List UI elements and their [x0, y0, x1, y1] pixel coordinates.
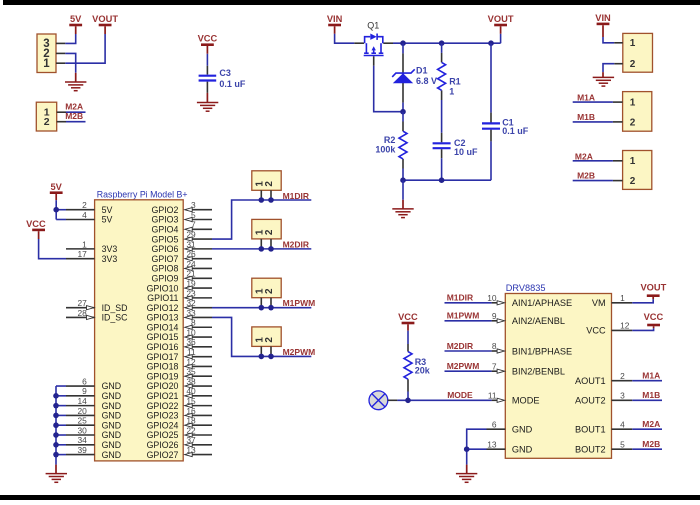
svg-text:GND: GND: [512, 425, 533, 435]
svg-text:GND: GND: [512, 445, 533, 455]
svg-text:M1A: M1A: [577, 93, 595, 103]
svg-text:GPIO3: GPIO3: [152, 215, 179, 225]
junction top rail at D1: [400, 40, 406, 46]
wire BOUT2 M2B: [632, 448, 662, 450]
svg-text:11: 11: [187, 347, 196, 357]
wire M2B (left): [66, 121, 86, 123]
svg-text:37: 37: [186, 435, 196, 445]
junction top rail at C1: [488, 40, 494, 46]
junctions M1DIR pins: [259, 197, 274, 203]
svg-text:13: 13: [186, 445, 196, 455]
net wire M1DIR to AIN1: [445, 302, 492, 304]
svg-text:10: 10: [487, 293, 497, 303]
svg-text:38: 38: [186, 376, 196, 386]
wire BOUT1 M2A: [632, 428, 662, 430]
svg-text:1: 1: [630, 98, 636, 109]
svg-text:M2PWM: M2PWM: [283, 347, 316, 357]
svg-text:11: 11: [488, 391, 497, 401]
svg-text:AOUT2: AOUT2: [575, 396, 606, 406]
svg-text:28: 28: [77, 308, 87, 318]
svg-text:32: 32: [186, 298, 196, 308]
supply flag VCC (C3): [198, 33, 218, 53]
connector JP1 pin stubs: [56, 43, 65, 63]
svg-text:6.8 V: 6.8 V: [416, 76, 437, 86]
junction 5V net: [53, 207, 59, 213]
svg-text:19: 19: [186, 278, 196, 288]
connector M2PWM pin stubs: [261, 346, 271, 356]
connector M1 pin labels: [630, 98, 636, 129]
svg-text:31: 31: [186, 239, 196, 249]
svg-text:2: 2: [264, 229, 275, 235]
wire M2B (right): [573, 180, 613, 182]
ground (C3): [197, 103, 218, 112]
svg-text:27: 27: [77, 298, 87, 308]
junction top rail at R1: [439, 40, 445, 46]
svg-text:1: 1: [82, 239, 87, 249]
svg-text:6: 6: [82, 376, 87, 386]
connector M2PWM box: [252, 327, 281, 347]
svg-text:4: 4: [82, 210, 87, 220]
svg-text:20: 20: [77, 406, 87, 416]
connector M1 pin stubs: [613, 102, 623, 122]
svg-text:M1PWM: M1PWM: [283, 298, 316, 308]
svg-text:20k: 20k: [415, 366, 431, 376]
svg-text:M1PWM: M1PWM: [447, 311, 480, 321]
svg-text:9: 9: [82, 386, 87, 396]
junctions M2PWM pins: [259, 354, 274, 360]
wire 5V to pins 2 and 4: [56, 200, 66, 219]
svg-text:VCC: VCC: [586, 326, 606, 336]
wire GPIO13 to M2PWM rail: [212, 317, 311, 356]
junction DRV8835 GND: [464, 446, 470, 452]
svg-text:GND: GND: [102, 430, 122, 440]
wire M2A (right): [573, 160, 613, 162]
wire VOUT to pin 1: [65, 34, 105, 63]
connector JP1 (3-pin) box: [37, 34, 56, 73]
svg-text:VM: VM: [592, 298, 606, 308]
svg-text:BIN1/BPHASE: BIN1/BPHASE: [512, 346, 572, 356]
svg-text:5V: 5V: [70, 14, 82, 24]
junction bottom rail at C2: [439, 177, 445, 183]
svg-text:GND: GND: [102, 381, 122, 391]
junction MODE/R3: [405, 398, 411, 404]
svg-text:39: 39: [77, 445, 87, 455]
ground (top-left connector): [65, 82, 86, 91]
supply flag VIN (right): [595, 13, 611, 37]
svg-text:2: 2: [630, 59, 636, 70]
svg-text:1: 1: [43, 58, 50, 70]
wire VIN to connector pin 1: [603, 37, 614, 43]
connector M1PWM pin stubs: [261, 298, 271, 308]
Raspberry Pi GPIO pin stubs and arrows: [185, 208, 212, 457]
wire VOUT drop: [500, 34, 502, 43]
svg-text:GPIO20: GPIO20: [147, 381, 179, 391]
DRV8835 right pin names: [575, 298, 606, 454]
svg-text:Raspberry Pi Model B+: Raspberry Pi Model B+: [97, 189, 188, 199]
svg-text:M2B: M2B: [642, 439, 660, 449]
svg-text:AIN2/AENBL: AIN2/AENBL: [512, 316, 565, 326]
svg-text:22: 22: [186, 425, 196, 435]
connector M2DIR box: [252, 219, 281, 239]
connector M2 pin stubs: [613, 161, 623, 181]
ground (DRV8835): [456, 474, 477, 483]
capacitor C1 symbol: [482, 122, 500, 124]
svg-text:GPIO19: GPIO19: [147, 371, 179, 381]
ground (VIN connector): [593, 77, 614, 86]
svg-text:GPIO5: GPIO5: [152, 234, 179, 244]
wire AOUT1 M1A: [632, 380, 662, 382]
wire GPIO5 to M1DIR rail: [212, 200, 311, 239]
svg-text:GPIO11: GPIO11: [147, 293, 178, 303]
node MODE stub: [388, 399, 398, 401]
svg-text:5: 5: [191, 210, 196, 220]
connector JP2 (M2 header) box: [36, 102, 56, 131]
svg-text:GPIO21: GPIO21: [147, 391, 179, 401]
svg-text:VIN: VIN: [595, 13, 611, 23]
svg-text:C3: C3: [219, 68, 231, 78]
svg-text:GPIO18: GPIO18: [147, 362, 179, 372]
Raspberry Pi GPIO pin numbers: [186, 200, 196, 455]
connector JP1 pin labels 3 2 1: [43, 38, 50, 70]
svg-text:10: 10: [186, 327, 196, 337]
svg-text:M2DIR: M2DIR: [447, 341, 473, 351]
Raspberry Pi left pin stubs: [66, 210, 95, 455]
svg-text:3V3: 3V3: [102, 244, 118, 254]
svg-text:GPIO26: GPIO26: [147, 440, 179, 450]
svg-text:5V: 5V: [102, 215, 113, 225]
svg-text:2: 2: [630, 176, 636, 187]
svg-text:VOUT: VOUT: [640, 282, 666, 292]
svg-text:R1: R1: [449, 77, 461, 87]
wire Q1 gate to divider: [374, 66, 403, 112]
svg-text:8: 8: [492, 341, 497, 351]
junctions M2DIR pins: [259, 246, 274, 252]
svg-text:GPIO23: GPIO23: [147, 411, 179, 421]
connector M1DIR pin stubs: [261, 190, 271, 200]
svg-text:7: 7: [492, 361, 497, 371]
resistor R2 leads: [402, 112, 404, 181]
connector VIN block box: [623, 33, 653, 72]
svg-text:6: 6: [492, 419, 497, 429]
svg-text:VCC: VCC: [644, 312, 664, 322]
capacitor C3 leads: [206, 54, 208, 93]
connector M1DIR pin labels 1 2: [255, 181, 275, 187]
svg-text:M2A: M2A: [65, 101, 83, 111]
junctions M1PWM pins: [259, 305, 274, 311]
resistor R1 symbol: [438, 62, 446, 90]
svg-text:0.1 uF: 0.1 uF: [502, 126, 529, 136]
svg-text:3: 3: [191, 200, 196, 210]
svg-text:15: 15: [186, 396, 196, 406]
svg-text:D1: D1: [416, 66, 428, 76]
svg-text:25: 25: [77, 416, 87, 426]
connector M1DIR box: [252, 171, 281, 191]
svg-text:M1DIR: M1DIR: [447, 293, 473, 303]
svg-text:2: 2: [44, 116, 50, 128]
DRV8835 left pin numbers: [487, 293, 497, 449]
svg-text:35: 35: [186, 367, 196, 377]
wire GND bus (Raspberry Pi): [56, 386, 66, 474]
supply flag VCC (DRV8835): [644, 312, 664, 328]
supply flag VOUT (top): [488, 14, 514, 34]
svg-text:M2B: M2B: [65, 111, 83, 121]
svg-text:GPIO16: GPIO16: [147, 342, 179, 352]
connector M2DIR pin stubs: [261, 239, 271, 249]
wire M1B (right): [573, 121, 613, 123]
net wire M2PWM to BIN2: [445, 370, 492, 372]
svg-text:GPIO22: GPIO22: [147, 401, 179, 411]
svg-text:GPIO6: GPIO6: [152, 244, 179, 254]
svg-text:MODE: MODE: [512, 396, 540, 406]
svg-text:GND: GND: [102, 450, 122, 460]
svg-text:GPIO27: GPIO27: [147, 450, 179, 460]
wire VM to VOUT: [632, 299, 653, 303]
svg-text:2: 2: [82, 200, 87, 210]
svg-text:2: 2: [630, 117, 636, 128]
svg-text:36: 36: [186, 337, 196, 347]
svg-text:M2PWM: M2PWM: [447, 361, 480, 371]
svg-text:BOUT1: BOUT1: [575, 425, 606, 435]
DRV8835 right pin stubs: [612, 303, 633, 449]
svg-text:M2DIR: M2DIR: [283, 239, 309, 249]
svg-text:M2A: M2A: [642, 419, 660, 429]
resistor R3 leads: [407, 331, 409, 401]
wire connector pin 2 to ground: [603, 64, 614, 78]
diode D1 leads: [402, 43, 404, 112]
wire 5V to pin 3: [65, 34, 75, 43]
svg-text:17: 17: [77, 249, 87, 259]
wire VCC pin 12: [632, 328, 653, 330]
DRV8835 GND pin wires: [467, 429, 506, 473]
connector M2 outputs box: [623, 151, 652, 190]
svg-text:24: 24: [186, 259, 196, 269]
DRV8835 right pin numbers: [620, 293, 630, 449]
svg-text:VCC: VCC: [26, 219, 46, 229]
svg-text:M1DIR: M1DIR: [283, 191, 309, 201]
svg-text:1: 1: [620, 293, 625, 303]
wire VIN to Q1 source: [335, 34, 355, 43]
svg-text:GPIO4: GPIO4: [152, 224, 179, 234]
supply flag VCC (R3): [398, 312, 418, 331]
svg-text:4: 4: [620, 419, 625, 429]
svg-text:GND: GND: [102, 391, 122, 401]
svg-text:10 uF: 10 uF: [454, 147, 478, 157]
zener diode D1 symbol: [392, 69, 415, 83]
svg-text:5V: 5V: [102, 205, 113, 215]
Raspberry Pi left pin names: [102, 205, 129, 460]
net wire M1PWM to AIN2: [445, 320, 492, 322]
IC U1 Raspberry Pi box: [95, 200, 184, 461]
node MODE no-connect circle: [369, 391, 388, 410]
capacitor C3 symbol: [199, 75, 217, 77]
svg-text:GPIO8: GPIO8: [152, 264, 179, 274]
resistor R2 symbol: [399, 131, 407, 159]
svg-text:GPIO13: GPIO13: [147, 313, 179, 323]
svg-text:2: 2: [264, 288, 275, 294]
svg-text:GPIO9: GPIO9: [152, 273, 179, 283]
svg-text:VIN: VIN: [327, 14, 343, 24]
svg-text:100k: 100k: [375, 144, 396, 154]
junction gate-divider node: [400, 109, 406, 115]
wire GPIO6 M2DIR rail: [212, 248, 311, 250]
transistor Q1 (P-MOSFET) symbol: [364, 34, 384, 56]
wire M2A (left): [66, 111, 86, 113]
connector M2 pin labels: [630, 156, 636, 187]
DRV8835 left input pin stubs with arrows: [492, 301, 505, 403]
svg-text:M2A: M2A: [575, 151, 593, 161]
svg-text:GPIO24: GPIO24: [147, 420, 179, 430]
svg-text:AOUT1: AOUT1: [575, 376, 606, 386]
svg-text:3V3: 3V3: [102, 254, 118, 264]
connector M2PWM pin labels 1 2: [255, 337, 275, 343]
svg-text:BOUT2: BOUT2: [575, 445, 606, 455]
svg-text:2: 2: [264, 337, 275, 343]
ground (power section): [392, 209, 413, 218]
svg-text:VCC: VCC: [398, 312, 418, 322]
svg-text:DRV8835: DRV8835: [506, 283, 546, 293]
connector JP2 pin stubs: [57, 112, 66, 122]
supply flag VCC (Raspberry Pi): [26, 219, 46, 239]
wire GPIO12 M1PWM rail: [212, 307, 311, 309]
svg-text:GPIO12: GPIO12: [147, 303, 179, 313]
svg-text:BIN2/BENBL: BIN2/BENBL: [512, 367, 565, 377]
svg-text:1: 1: [630, 156, 636, 167]
resistor R3 symbol: [404, 352, 412, 380]
svg-text:9: 9: [492, 311, 497, 321]
svg-text:GND: GND: [102, 401, 122, 411]
svg-text:ID_SD: ID_SD: [102, 303, 128, 313]
connector M2DIR pin labels 1 2: [255, 229, 275, 235]
connector M1PWM pin labels 1 2: [255, 288, 275, 294]
resistor R1 leads: [441, 43, 443, 133]
wire pin 2 to ground: [65, 53, 75, 82]
svg-text:40: 40: [186, 386, 196, 396]
junction bottom rail at R2: [400, 177, 406, 183]
svg-text:34: 34: [77, 435, 87, 445]
transistor Q1 pin leads: [354, 43, 393, 66]
connector VIN block pin stubs: [614, 43, 623, 64]
svg-text:3: 3: [620, 391, 625, 401]
wire M1A (right): [573, 101, 613, 103]
wire MODE to DRV8835: [397, 399, 491, 401]
svg-text:VOUT: VOUT: [92, 14, 118, 24]
ground (Raspberry Pi): [46, 474, 67, 483]
Raspberry Pi GPIO pin names: [147, 205, 179, 460]
wire top rail VIN-VOUT: [393, 42, 501, 44]
svg-text:GND: GND: [102, 411, 122, 421]
wire VCC to pin 17: [39, 239, 66, 259]
svg-text:GPIO2: GPIO2: [152, 205, 179, 215]
svg-text:21: 21: [186, 269, 196, 279]
svg-text:GPIO10: GPIO10: [147, 283, 179, 293]
supply flag VIN (top): [327, 14, 343, 34]
svg-text:7: 7: [191, 220, 196, 230]
svg-text:12: 12: [620, 321, 630, 331]
svg-text:Q1: Q1: [367, 20, 379, 30]
svg-text:M1A: M1A: [642, 370, 660, 380]
svg-text:MODE: MODE: [447, 390, 473, 400]
Raspberry Pi left pin numbers: [77, 200, 87, 455]
wire to power ground: [402, 180, 404, 209]
svg-text:GND: GND: [102, 420, 122, 430]
svg-text:M1B: M1B: [577, 112, 595, 122]
svg-text:13: 13: [487, 439, 497, 449]
svg-text:5: 5: [620, 439, 625, 449]
IC U2 DRV8835 box: [505, 294, 611, 459]
supply flag 5V (top-left): [69, 14, 82, 34]
svg-text:33: 33: [186, 308, 196, 318]
connector VIN block pin labels: [630, 38, 636, 70]
svg-text:30: 30: [77, 425, 87, 435]
junctions GND bus: [53, 393, 59, 457]
svg-text:0.1 uF: 0.1 uF: [219, 79, 246, 89]
wire C3 to ground: [206, 93, 208, 103]
svg-text:8: 8: [191, 318, 196, 328]
svg-text:VOUT: VOUT: [488, 14, 514, 24]
svg-text:GPIO14: GPIO14: [147, 322, 179, 332]
svg-text:M1B: M1B: [642, 390, 660, 400]
net wire M2DIR to BIN1: [445, 350, 492, 352]
svg-text:GPIO15: GPIO15: [147, 332, 179, 342]
svg-text:5V: 5V: [51, 182, 63, 192]
svg-text:29: 29: [186, 229, 196, 239]
svg-text:2: 2: [264, 181, 275, 187]
svg-text:VCC: VCC: [198, 33, 218, 43]
svg-text:GPIO25: GPIO25: [147, 430, 179, 440]
capacitor C2 symbol: [433, 142, 451, 144]
wire bottom rail GND: [403, 179, 491, 181]
supply flag 5V (Raspberry Pi): [50, 182, 63, 200]
connector M1PWM box: [252, 278, 281, 298]
svg-text:26: 26: [186, 249, 196, 259]
wire AOUT2 M1B: [632, 399, 662, 401]
svg-text:AIN1/APHASE: AIN1/APHASE: [512, 298, 572, 308]
svg-text:GPIO7: GPIO7: [152, 254, 179, 264]
svg-text:M2B: M2B: [577, 171, 595, 181]
svg-text:23: 23: [186, 288, 196, 298]
supply flag VOUT (top-left): [92, 14, 118, 34]
capacitor C2 leads: [441, 133, 443, 180]
supply flag VOUT (DRV8835 VM): [640, 282, 666, 299]
svg-text:ID_SC: ID_SC: [102, 313, 129, 323]
DRV8835 left pin names: [512, 298, 572, 454]
svg-text:18: 18: [186, 416, 196, 426]
svg-text:2: 2: [620, 371, 625, 381]
svg-text:16: 16: [186, 406, 196, 416]
svg-text:GND: GND: [102, 440, 122, 450]
capacitor C1 leads: [490, 43, 492, 180]
svg-text:GPIO17: GPIO17: [147, 352, 179, 362]
svg-text:12: 12: [186, 357, 196, 367]
connector JP2 pin labels 1 2: [44, 107, 50, 129]
svg-text:14: 14: [77, 396, 87, 406]
svg-text:1: 1: [630, 38, 636, 49]
connector M1 outputs box: [623, 92, 652, 132]
svg-text:1: 1: [449, 86, 454, 96]
